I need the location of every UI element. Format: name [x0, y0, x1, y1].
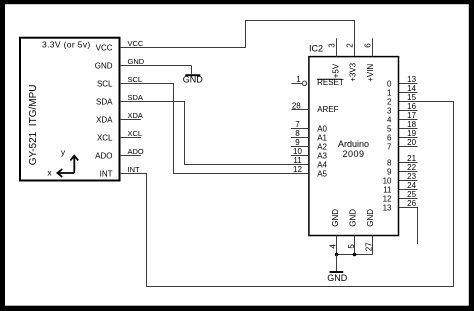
svg-text:10: 10 — [293, 147, 302, 156]
wire XCL stub — [120, 137, 141, 139]
svg-text:XCL: XCL — [97, 133, 113, 142]
svg-text:SCL: SCL — [97, 79, 113, 88]
svg-text:GND: GND — [183, 75, 204, 85]
wire XDA stub — [120, 119, 141, 121]
svg-text:XDA: XDA — [96, 115, 113, 124]
svg-text:15: 15 — [407, 93, 416, 102]
IC U1 GY-521 ITG/MPU body — [20, 38, 120, 181]
svg-text:12: 12 — [293, 165, 302, 174]
svg-text:4: 4 — [328, 244, 337, 249]
svg-text:GND: GND — [348, 209, 357, 227]
svg-text:10: 10 — [383, 176, 392, 185]
pin 18 stub (D5) — [399, 128, 418, 130]
svg-text:ADO: ADO — [128, 147, 144, 156]
svg-text:A1: A1 — [317, 133, 327, 142]
pin 28 AREF stub — [292, 109, 310, 111]
svg-text:GND: GND — [95, 61, 113, 70]
svg-text:6: 6 — [387, 133, 392, 142]
pin 19 stub (D6) — [399, 137, 418, 139]
svg-text:A2: A2 — [317, 142, 327, 151]
RESET overline — [317, 78, 342, 80]
svg-text:25: 25 — [407, 190, 416, 199]
wire ADO stub — [120, 155, 141, 157]
svg-text:A5: A5 — [317, 169, 327, 178]
svg-text:9: 9 — [295, 138, 300, 147]
pin 9 A2 stub — [291, 146, 309, 148]
svg-text:19: 19 — [407, 129, 416, 138]
svg-text:2009: 2009 — [342, 149, 364, 159]
svg-text:4: 4 — [387, 115, 392, 124]
pin 16 stub (D3) — [399, 110, 418, 112]
pin 1 RESET stub — [292, 83, 303, 85]
svg-text:20: 20 — [407, 138, 416, 147]
svg-text:+5V: +5V — [331, 63, 340, 78]
svg-text:Arduino: Arduino — [338, 139, 369, 149]
svg-text:21: 21 — [407, 154, 416, 163]
pin 26 stub with dangling wire (D13) — [399, 208, 418, 245]
wire SDA from U1 to IC2 A4 — [120, 102, 309, 165]
ground symbol GND1 — [183, 66, 204, 85]
pin 13 stub (D0) — [399, 83, 418, 85]
svg-text:6: 6 — [364, 43, 373, 48]
pin 8 A1 stub — [291, 137, 309, 139]
svg-text:27: 27 — [364, 242, 373, 251]
pin 14 stub (D1) — [399, 92, 418, 94]
svg-text:22: 22 — [407, 163, 416, 172]
svg-text:5: 5 — [347, 244, 356, 249]
junction dot pin5 — [353, 253, 357, 257]
svg-text:11: 11 — [293, 156, 302, 165]
wire GND from U1 — [120, 65, 192, 67]
junction dot pin4 — [335, 253, 339, 257]
svg-text:XDA: XDA — [128, 111, 143, 120]
svg-text:SDA: SDA — [96, 97, 113, 106]
svg-text:26: 26 — [407, 199, 416, 208]
svg-text:11: 11 — [383, 185, 392, 194]
svg-text:24: 24 — [407, 181, 416, 190]
svg-text:SDA: SDA — [128, 93, 143, 102]
svg-text:INT: INT — [128, 165, 141, 174]
pin 4 stub (GND) — [336, 236, 338, 255]
svg-text:SCL: SCL — [128, 75, 143, 84]
svg-text:13: 13 — [407, 75, 416, 84]
svg-text:IC2: IC2 — [309, 44, 323, 54]
svg-text:GND: GND — [128, 57, 145, 66]
svg-text:AREF: AREF — [317, 105, 338, 114]
wire INT from U1 to IC2 pin 15 (D2) — [120, 102, 454, 287]
svg-text:+VIN: +VIN — [366, 64, 375, 82]
svg-text:GND: GND — [327, 273, 348, 283]
svg-text:12: 12 — [383, 194, 392, 203]
svg-text:16: 16 — [407, 102, 416, 111]
pin 10 A3 stub — [291, 155, 309, 157]
pin 5 stub (GND) — [354, 236, 356, 255]
svg-text:3: 3 — [328, 43, 337, 48]
wire SCL from U1 to IC2 A5 — [120, 84, 309, 174]
svg-text:5: 5 — [387, 124, 392, 133]
svg-text:14: 14 — [407, 84, 416, 93]
svg-text:XCL: XCL — [128, 129, 143, 138]
svg-text:13: 13 — [383, 203, 392, 212]
svg-text:9: 9 — [387, 167, 392, 176]
svg-text:GND: GND — [366, 209, 375, 227]
svg-text:23: 23 — [407, 172, 416, 181]
svg-text:VCC: VCC — [96, 43, 113, 52]
svg-text:GND: GND — [331, 209, 340, 227]
svg-text:1: 1 — [387, 88, 392, 97]
pin 20 stub (D7) — [399, 146, 418, 148]
svg-text:17: 17 — [407, 111, 416, 120]
svg-text:A4: A4 — [317, 160, 327, 169]
RESET inverting bubble — [302, 81, 306, 85]
pin 23 stub (D10) — [399, 180, 418, 182]
svg-text:A0: A0 — [317, 124, 327, 133]
pin 17 stub (D4) — [399, 119, 418, 121]
svg-text:7: 7 — [295, 120, 300, 129]
pin 22 stub (D9) — [399, 171, 418, 173]
pin 24 stub (D11) — [399, 189, 418, 191]
svg-text:8: 8 — [295, 129, 300, 138]
pin 27 stub (GND) — [372, 236, 374, 255]
svg-text:3: 3 — [387, 106, 392, 115]
wire VCC from U1 to IC2 pin 2 (+3V3) — [120, 21, 355, 57]
ground symbol GND2 — [327, 255, 348, 284]
top pin stub 3 (+5V) — [336, 38, 338, 56]
svg-text:GY-521 ITG/MPU: GY-521 ITG/MPU — [28, 85, 39, 166]
svg-text:18: 18 — [407, 120, 416, 129]
svg-text:28: 28 — [292, 101, 301, 110]
svg-text:VCC: VCC — [128, 39, 144, 48]
pin 7 A0 stub — [291, 128, 309, 130]
svg-text:ADO: ADO — [95, 151, 112, 160]
wire GND bus connecting pins 4,5,27 — [337, 254, 373, 256]
pin 25 stub (D12) — [399, 198, 418, 200]
svg-text:2: 2 — [387, 97, 392, 106]
svg-text:3.3V (or 5v): 3.3V (or 5v) — [42, 40, 91, 50]
pin 21 stub (D8) — [399, 162, 418, 164]
svg-text:1: 1 — [296, 75, 301, 84]
IC2 Arduino 2009 body — [309, 57, 399, 236]
svg-text:2: 2 — [346, 43, 355, 48]
svg-text:7: 7 — [387, 142, 392, 151]
svg-text:8: 8 — [387, 158, 392, 167]
svg-text:0: 0 — [387, 79, 392, 88]
axis indicator x/y arrows — [57, 156, 78, 177]
top pin stub 6 (+VIN) — [372, 38, 374, 56]
svg-text:INT: INT — [100, 169, 113, 178]
svg-text:+3V3: +3V3 — [349, 62, 358, 81]
svg-text:A3: A3 — [317, 151, 327, 160]
